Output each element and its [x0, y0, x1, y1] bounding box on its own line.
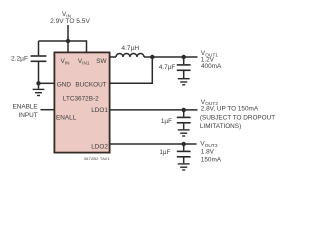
svg-text:1µF: 1µF: [161, 118, 172, 125]
wire VIN1 vertical drop: [86, 40, 88, 52]
svg-text:ENABLE: ENABLE: [12, 104, 37, 111]
op-amp U1 LTC3672B-2 body: [54, 52, 109, 152]
node VOUT1 output labels: [201, 50, 222, 70]
node junction dot LDO1: [182, 108, 186, 112]
wire VIN vertical drop to rail and VIN pin: [67, 25, 69, 53]
wire inductor to VOUT1: [144, 56, 198, 58]
node ENABLE INPUT label: [12, 104, 37, 119]
svg-text:SW: SW: [96, 58, 107, 65]
node VOUT3 output labels: [200, 141, 221, 164]
svg-text:LTC3672B-2: LTC3672B-2: [63, 96, 99, 103]
svg-text:1.8V: 1.8V: [201, 148, 215, 155]
svg-text:(SUBJECT TO DROPOUT: (SUBJECT TO DROPOUT: [200, 115, 275, 122]
node junction dot VOUT1: [182, 55, 186, 59]
node junction dot SW/BUCKOUT: [150, 55, 154, 59]
capacitor C2 4.7uF: [177, 57, 191, 78]
svg-text:LDO2: LDO2: [91, 144, 108, 151]
svg-text:3672B2 TA01: 3672B2 TA01: [84, 156, 111, 161]
wire ENABLE input to ENALL pin: [41, 109, 55, 111]
wire LDO2 to VOUT3: [110, 143, 197, 145]
svg-text:4.7µH: 4.7µH: [121, 45, 139, 52]
wire LDO1 to VOUT2: [110, 109, 198, 111]
capacitor C1 2.2uF: [31, 41, 47, 83]
node VIN label: [50, 11, 90, 25]
node VOUT2 output labels: [200, 99, 275, 130]
wire BUCKOUT feedback: [110, 57, 152, 83]
ground symbol C4: [178, 164, 190, 170]
svg-text:150mA: 150mA: [201, 156, 222, 163]
svg-text:2.9V TO 5.5V: 2.9V TO 5.5V: [50, 18, 90, 25]
node junction dot GND: [36, 81, 40, 85]
inductor L1 4.7uH: [116, 45, 144, 57]
ground symbol left: [33, 83, 45, 95]
node junction dot VIN rail: [66, 39, 70, 43]
svg-text:ENALL: ENALL: [56, 115, 77, 122]
svg-text:2.2µF: 2.2µF: [11, 55, 28, 62]
ground symbol C2: [178, 79, 190, 85]
svg-text:400mA: 400mA: [201, 63, 222, 70]
capacitor C4 1uF: [177, 144, 191, 163]
svg-text:2.8V, UP TO 150mA: 2.8V, UP TO 150mA: [201, 106, 259, 113]
node junction dot LDO2: [182, 142, 186, 146]
svg-text:BUCKOUT: BUCKOUT: [75, 81, 106, 88]
wire top rail: [39, 40, 87, 42]
ground symbol C3: [178, 130, 190, 136]
svg-text:1µF: 1µF: [159, 149, 170, 156]
svg-text:4.7µF: 4.7µF: [159, 64, 176, 71]
svg-text:INPUT: INPUT: [19, 112, 38, 119]
svg-text:LDO1: LDO1: [91, 107, 108, 114]
svg-text:LIMITATIONS): LIMITATIONS): [200, 123, 241, 130]
svg-text:GND: GND: [57, 81, 72, 88]
wire SW pin to inductor: [110, 56, 116, 58]
capacitor C3 1uF: [177, 110, 191, 129]
wire GND pin to ground node: [39, 82, 55, 84]
